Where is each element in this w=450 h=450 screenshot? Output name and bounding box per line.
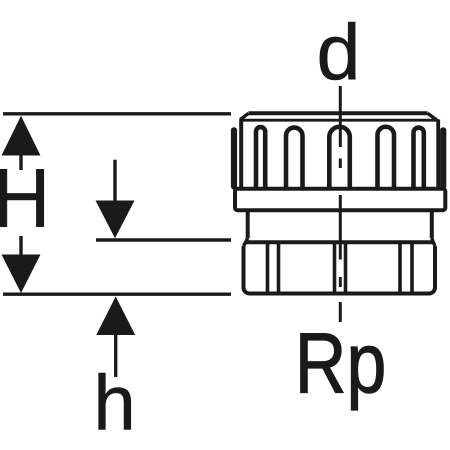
extension line bottom (H/h bottom) (3, 293, 231, 296)
neck-to-nut left chamfer (244, 239, 248, 247)
cap left profile edge (239, 120, 243, 188)
H height arrow down (to h-top line) (96, 160, 135, 239)
centerline segment above cap (339, 86, 342, 147)
cap slot 1 (256, 127, 265, 188)
neck-to-nut right chamfer (432, 239, 435, 247)
h dimension arrow up (96, 297, 135, 378)
extension line middle (h top) (96, 238, 231, 241)
nut flat line 2 (277, 244, 281, 292)
svg-text:H: H (0, 152, 50, 245)
H dimension arrow up (2, 116, 41, 170)
neck left edge (246, 211, 250, 239)
extension line top (H top) (3, 112, 231, 115)
nut flat line 3 (333, 244, 337, 292)
cap right profile edge (436, 120, 440, 188)
neck right edge (430, 211, 434, 239)
nut outline (244, 242, 436, 293)
nut flat line 1 (266, 244, 270, 292)
centerline segment through band and neck (339, 195, 342, 260)
cap chamfer ring lower line (240, 119, 439, 122)
cap top-left chamfer (240, 113, 249, 120)
nut flat line 4 (344, 244, 348, 292)
cap slot 2 (286, 128, 303, 188)
H dimension arrow down (2, 236, 41, 293)
cap top edge (249, 111, 428, 115)
cap left outer rib (231, 130, 237, 186)
cap slot 4 (378, 127, 395, 188)
nut flat line 5 (398, 244, 402, 292)
cap right outer rib (440, 130, 446, 186)
nut flat line 6 (410, 244, 414, 292)
cap slot 5 (414, 128, 424, 188)
centerline dash in cap slot (339, 159, 342, 169)
centerline dash in nut (339, 277, 342, 287)
svg-text:Rp: Rp (295, 316, 387, 411)
centerline segment below nut (339, 302, 342, 322)
svg-text:h: h (93, 360, 135, 447)
cap slot 3 (center) (329, 127, 350, 188)
svg-text:d: d (317, 7, 361, 96)
cap bottom band (235, 189, 445, 210)
cap top-right chamfer (428, 113, 437, 120)
